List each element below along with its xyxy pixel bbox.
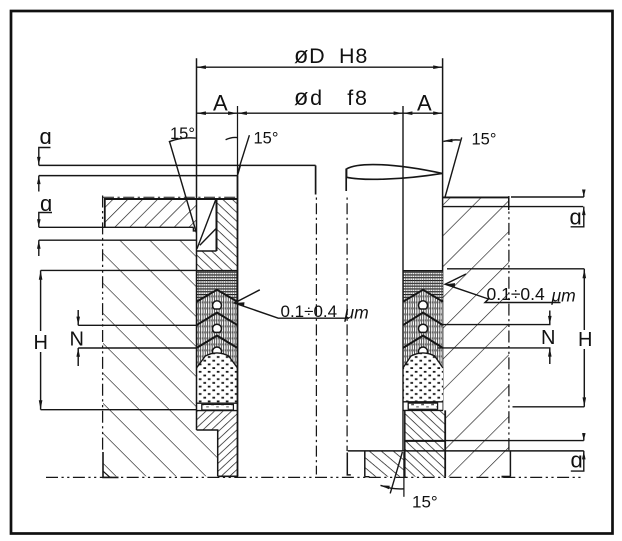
right flange left edge [364,451,366,477]
nose chamfer line [197,199,216,249]
svg-text:øD H8: øD H8 [294,42,368,68]
gland nose notch bottom [197,250,217,252]
right lantern holes [418,301,427,309]
right packing bottom plate band [404,402,443,411]
right bore edge / ØD extension right [442,58,444,410]
a callout bottom-right [405,440,584,442]
svg-text:15°: 15° [254,130,279,148]
left N dimension [78,324,196,326]
left chevron ring line 1 [197,290,238,302]
housing bore line / ØD extension left [196,58,198,430]
gland nose inner edge [216,199,218,251]
right flange right edge [509,451,511,477]
right housing top right corner [508,197,510,210]
left housing body (hatched) [103,240,218,476]
svg-text:ɑ: ɑ [571,448,583,473]
nose chamfer line 2 [200,229,216,245]
right shaft centerline [346,196,348,451]
svg-text:15°: 15° [472,131,497,149]
chain line along gland flange top [103,196,238,198]
left bottom plate inner rect [202,404,234,410]
svg-text:H: H [34,332,48,354]
left shaft end chamfer [238,165,241,175]
right gasket line [405,440,445,442]
right flange top surface line (surface a) [348,450,584,452]
centerline horizontal axis (bottom chain line) [46,476,582,478]
svg-text:0.1÷0.4: 0.1÷0.4 [487,284,546,304]
left shaft centerline [315,196,317,475]
svg-text:μm: μm [551,286,576,306]
gland flange bottom edge (surface a) [39,226,194,228]
left housing bottom-left corner [103,452,119,477]
svg-text:15°: 15° [412,493,438,512]
svg-text:ɑ: ɑ [40,124,52,149]
right shaft end dome (lens) [347,165,443,174]
right housing break chain line [508,196,510,451]
left lantern holes [212,301,221,309]
svg-text:ød f8: ød f8 [294,84,369,110]
left packing stack top line [197,270,238,272]
left bottom ring bottom edge [218,475,239,477]
dimension Ød f8 with A A [197,112,443,114]
left chevron ring line 3 [197,336,238,348]
right roughness 0.1÷0.4 µm [445,274,560,303]
svg-text:N: N [541,327,555,349]
right bottom soft packing (dotted) [403,353,443,402]
right bottom plate inner rect [408,403,437,409]
left shaft end face line (surface a) [39,164,316,166]
svg-text:H: H [578,329,592,351]
right chevron ring line 3 [403,336,443,348]
right shaft surface line / Ød extension right [402,106,404,451]
right H dimension [447,268,584,270]
right bore entrance chamfer + leader [445,137,462,198]
left shaft right edge [315,165,317,194]
right housing body (hatched) [443,197,509,450]
svg-text:A: A [417,91,432,116]
dimension ØD H8 [197,66,443,68]
right bottom ring edges [404,410,406,476]
right braided packing ring [403,270,443,272]
svg-text:A: A [213,91,228,116]
left bottom ring step [197,430,218,476]
right N dimension [440,324,551,326]
right flange right part (hatched) [445,451,509,477]
gland flange right step [193,227,196,231]
left housing break chain line [102,196,104,453]
left bottom ring (hatched) [197,411,238,476]
right bottom ring (hatched) [405,410,445,476]
right chevron ring line 2 [403,313,443,326]
gland flange plate (hatched) [105,199,197,227]
left chevron packing zone [197,290,238,368]
right chevron ring line 1 [403,290,443,302]
left chevron ring line 2 [197,313,238,326]
right housing top edge [443,196,509,198]
gland nose bushing (hatched) [197,199,238,271]
left bottom soft packing (dotted) [197,353,238,403]
gland flange top edge [105,198,238,200]
left roughness 0.1÷0.4 µm [234,290,349,318]
left housing top edge (gap surface) [39,239,197,241]
left H dimension [41,269,197,271]
svg-text:μm: μm [344,303,369,323]
right chevron packing zone [403,290,443,368]
left shaft surface line / Ød extension [237,106,239,176]
svg-text:ɑ: ɑ [570,205,582,230]
svg-text:N: N [70,329,84,351]
left braided packing ring [197,271,237,302]
gland flange left edge [104,198,106,228]
right flange left part (hatched) [365,451,405,477]
left packing bottom plate band [197,403,237,410]
right flange bottom edge (corner) [365,476,370,478]
left shaft full-diameter line (surface a) [39,175,238,177]
right shaft left edge [345,169,347,192]
right flange bore hole edge [347,453,351,475]
svg-text:0.1÷0.4: 0.1÷0.4 [281,302,338,321]
a callout top-right [511,196,584,198]
